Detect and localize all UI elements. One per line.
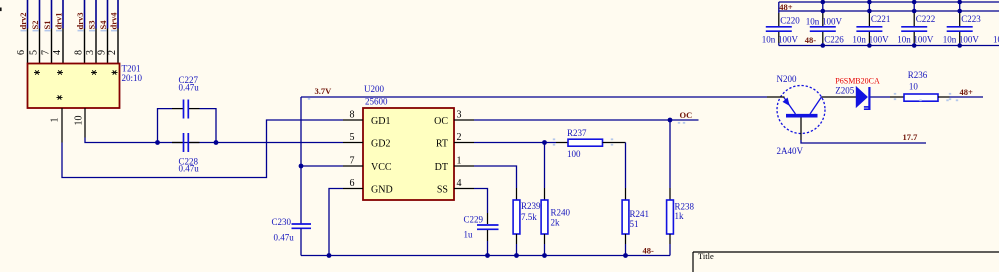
svg-text:100V: 100V: [913, 34, 934, 44]
wire: DT to R239: [474, 166, 517, 188]
svg-text:4: 4: [52, 50, 63, 55]
svg-text:7: 7: [350, 156, 355, 167]
transistor N200: [767, 86, 856, 141]
svg-text:100: 100: [567, 149, 581, 159]
svg-text:3: 3: [85, 50, 96, 55]
svg-text:51: 51: [630, 219, 639, 229]
junction VCC: [299, 164, 304, 169]
selection grip marks: [21, 30, 959, 146]
svg-text:DT: DT: [435, 162, 448, 173]
svg-text:drv1: drv1: [54, 13, 64, 30]
junctions: [912, 0, 917, 4]
wire: OC net: [474, 119, 699, 121]
svg-text:9: 9: [97, 50, 108, 55]
capacitor C230: [292, 223, 312, 225]
wire: base to 17.7: [801, 140, 926, 143]
svg-text:5: 5: [29, 50, 40, 55]
svg-text:drv3: drv3: [75, 13, 85, 30]
capacitor C227 branch wires: [158, 109, 173, 143]
svg-text:R236: R236: [908, 70, 928, 80]
ground rail 48-: [301, 255, 670, 257]
pin numbers 6 5 7 4 8 3 9 2: [16, 50, 118, 55]
svg-text:48-: 48-: [643, 246, 655, 256]
svg-text:1: 1: [50, 118, 61, 123]
svg-text:48+: 48+: [960, 87, 974, 97]
svg-text:R241: R241: [630, 209, 650, 219]
svg-text:C222: C222: [916, 14, 936, 24]
junctions: [821, 0, 826, 4]
svg-text:20:10: 20:10: [122, 73, 143, 83]
transformer T201 body: [28, 64, 120, 109]
svg-text:0.47u: 0.47u: [274, 233, 295, 243]
svg-text:10: 10: [909, 82, 919, 92]
resistor R239: [516, 188, 518, 200]
svg-text:N200: N200: [777, 74, 797, 84]
junction OC: [668, 118, 673, 123]
svg-text:Z205: Z205: [835, 86, 854, 96]
svg-text:C221: C221: [871, 14, 891, 24]
svg-text:U200: U200: [364, 84, 384, 94]
svg-text:10n: 10n: [806, 16, 820, 26]
svg-text:0.47u: 0.47u: [179, 83, 200, 93]
svg-text:GND: GND: [371, 185, 393, 196]
svg-text:C223: C223: [961, 14, 981, 24]
svg-text:OC: OC: [680, 110, 693, 120]
svg-text:1u: 1u: [464, 230, 474, 240]
resistor R238: [669, 120, 671, 188]
svg-text:10n: 10n: [762, 34, 776, 44]
svg-text:2A40V: 2A40V: [777, 146, 804, 156]
wire: diode to R236: [871, 96, 891, 98]
svg-text:S3: S3: [87, 21, 97, 30]
svg-text:25600: 25600: [365, 97, 388, 107]
svg-text:6: 6: [350, 178, 355, 189]
svg-text:R237: R237: [567, 128, 587, 138]
wire: vertical VCC / C230 line: [300, 97, 302, 224]
svg-text:17.7: 17.7: [903, 132, 919, 142]
svg-text:8: 8: [74, 50, 85, 55]
svg-text:0.47u: 0.47u: [179, 164, 200, 174]
capacitor C227: [183, 100, 185, 119]
svg-text:S2: S2: [30, 21, 40, 30]
capacitor C226: [810, 2, 836, 46]
junction GND/rail: [327, 253, 332, 258]
svg-text:2: 2: [107, 50, 118, 55]
svg-text:GD2: GD2: [371, 139, 390, 150]
svg-text:GD1: GD1: [371, 116, 390, 127]
svg-text:C226: C226: [824, 34, 844, 44]
svg-text:1k: 1k: [675, 211, 685, 221]
capacitor bank rails: [779, 1, 999, 3]
junctions: [957, 0, 962, 4]
capacitor C223: [947, 2, 973, 46]
junction: [155, 140, 160, 145]
svg-text:4: 4: [457, 178, 462, 189]
sheet border fragment top-left: [0, 8, 2, 12]
junction: [214, 140, 219, 145]
svg-text:100V: 100V: [778, 34, 799, 44]
svg-text:T201: T201: [122, 64, 141, 74]
svg-text:P6SMB20CA: P6SMB20CA: [835, 77, 880, 86]
svg-text:8: 8: [350, 110, 355, 121]
wire: 3.7V rail to transistor emitter: [301, 96, 767, 98]
svg-text:C230: C230: [272, 217, 292, 227]
wire: pin1 net to GD1: [62, 120, 343, 178]
svg-text:3.7V: 3.7V: [315, 86, 333, 96]
wire: RT net: [474, 142, 556, 144]
wire: GND pin to rail: [329, 189, 343, 256]
transformer T201 pin wires (top): [28, 0, 119, 64]
svg-text:Title: Title: [698, 251, 714, 261]
capacitor C220: [766, 2, 792, 46]
svg-text:3: 3: [457, 110, 462, 121]
svg-text:7.5k: 7.5k: [521, 212, 537, 222]
title block: [693, 251, 999, 253]
svg-text:C229: C229: [464, 215, 484, 225]
svg-text:C220: C220: [780, 15, 800, 25]
svg-text:10: 10: [74, 116, 85, 126]
svg-text:100V: 100V: [822, 16, 843, 26]
wire: SS to C229: [474, 189, 488, 214]
junction RT/R240: [542, 140, 547, 145]
U200 left pin stubs: [343, 120, 474, 189]
capacitor C222: [901, 2, 927, 46]
T201 pin 10 (bottom): [84, 108, 86, 138]
wire: pin10 net to GD2: [85, 138, 343, 143]
svg-text:48-: 48-: [805, 35, 817, 45]
svg-text:6: 6: [16, 50, 27, 55]
svg-text:1: 1: [457, 156, 462, 167]
svg-text:7: 7: [41, 50, 52, 55]
svg-text:R238: R238: [675, 202, 695, 212]
resistor R240: [544, 143, 546, 189]
svg-text:OC: OC: [434, 116, 448, 127]
svg-text:48+: 48+: [779, 2, 793, 12]
T201 pin 1 (bottom): [61, 108, 63, 143]
svg-text:100V: 100V: [959, 34, 980, 44]
capacitor C228 (in line): [172, 142, 183, 144]
polarity asterisks: [34, 70, 118, 99]
svg-text:10n: 10n: [852, 34, 866, 44]
capacitor C221: [856, 2, 882, 46]
svg-text:drv4: drv4: [109, 12, 119, 30]
wire: VCC pin: [301, 165, 343, 167]
pin numbers: [350, 110, 462, 190]
svg-text:R240: R240: [551, 208, 571, 218]
svg-text:S4: S4: [98, 20, 108, 30]
diode Z205: [856, 87, 870, 109]
resistor R237: [556, 142, 568, 144]
svg-text:5: 5: [350, 132, 355, 143]
svg-text:10n: 10n: [943, 34, 957, 44]
svg-text:RT: RT: [436, 139, 448, 150]
svg-text:VCC: VCC: [371, 162, 392, 173]
svg-text:S1: S1: [42, 21, 52, 30]
svg-text:drv2: drv2: [18, 13, 28, 30]
junctions: [867, 0, 872, 4]
pin names: [371, 116, 448, 196]
svg-text:10n: 10n: [993, 34, 999, 44]
capacitor C229: [487, 213, 489, 224]
svg-text:100V: 100V: [869, 34, 890, 44]
resistor R236: [904, 94, 938, 101]
svg-text:SS: SS: [437, 185, 448, 196]
svg-text:2: 2: [457, 132, 462, 143]
op-amp U200 body: [363, 108, 454, 200]
svg-text:10n: 10n: [897, 34, 911, 44]
resistor R241: [625, 143, 627, 189]
svg-text:2k: 2k: [551, 218, 561, 228]
svg-text:R239: R239: [521, 201, 541, 211]
